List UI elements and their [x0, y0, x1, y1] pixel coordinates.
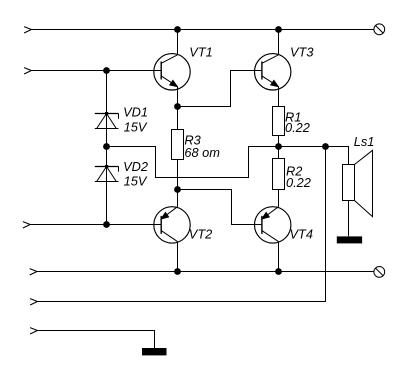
input arrow 3 — [23, 222, 30, 228]
zener diode VD2 — [95, 165, 119, 182]
wire node B to VT2 top — [177, 190, 179, 207]
resistor R1 — [273, 107, 285, 136]
node VT3 collector / rail — [275, 26, 282, 33]
input arrow 1 — [24, 27, 31, 33]
wire R2 bottom to VT4 — [278, 190, 280, 207]
svg-text:68 om: 68 om — [184, 145, 220, 160]
ground (bottom left) — [142, 348, 167, 355]
wire junction to R2 top — [278, 147, 280, 159]
wire VT2 collector to out rail — [177, 242, 179, 272]
wire VT3 emitter to R1 — [278, 87, 280, 107]
svg-text:15V: 15V — [124, 119, 148, 134]
wire junction to speaker node — [279, 146, 326, 148]
node VT1 collector / rail — [174, 26, 181, 33]
wire VT1 emitter to node A — [177, 87, 179, 107]
wire VD chain — [106, 71, 108, 225]
transistor VT4 — [255, 207, 291, 243]
wire rail 5 to speaker feed — [37, 147, 325, 302]
node speaker feed — [322, 143, 329, 150]
resistor R2 — [273, 159, 285, 190]
wire input rail 3 to VT2 base — [30, 224, 161, 226]
svg-text:VD1: VD1 — [123, 105, 148, 120]
node VD1 top — [103, 67, 110, 74]
svg-text:VT3: VT3 — [290, 45, 313, 60]
loudspeaker Ls1 — [343, 150, 373, 216]
svg-text:VT2: VT2 — [189, 226, 212, 241]
node B — [174, 186, 181, 193]
wire R3 bottom to node B — [177, 160, 179, 190]
terminal output top — [374, 24, 385, 35]
node VT2 collector / out — [174, 268, 181, 275]
node R1/R2 junction — [275, 143, 282, 150]
wire speaker node to Ls1 — [326, 147, 349, 165]
svg-text:0.22: 0.22 — [285, 120, 310, 135]
wire node A to R3 top — [177, 107, 179, 130]
wire VT3 collector — [278, 30, 280, 55]
transistor VT3 — [255, 54, 291, 90]
wire R1 bottom to junction — [278, 136, 280, 147]
transistor VT1 — [154, 54, 190, 90]
svg-text:VT1: VT1 — [189, 45, 212, 60]
wire VT4 collector to out rail — [278, 242, 280, 272]
node A — [174, 103, 181, 110]
zener diode VD1 — [95, 112, 119, 129]
node VD1/VD2 junction — [103, 143, 110, 150]
wire output rail — [37, 271, 374, 273]
wire rail 6 to ground — [37, 331, 154, 349]
wire VT1 collector — [177, 30, 179, 55]
input arrow 2 — [24, 68, 31, 74]
input arrow 5 — [30, 299, 37, 305]
terminal output bottom — [374, 267, 385, 278]
node VD2 bottom — [103, 221, 110, 228]
wire node A to VT3 base — [178, 71, 263, 107]
wire Ls1 to ground — [348, 201, 350, 237]
wire node B to VT4 base — [178, 190, 263, 225]
svg-text:VD2: VD2 — [123, 159, 148, 174]
svg-text:15V: 15V — [124, 174, 148, 189]
transistor VT2 — [154, 207, 190, 243]
svg-text:VT4: VT4 — [290, 226, 313, 241]
resistor R3 — [172, 130, 184, 160]
input arrow 6 — [30, 328, 37, 334]
wire VD midpoint to R1/R2 junction (zigzag) — [107, 147, 279, 178]
wire top rail +V — [31, 29, 374, 31]
input arrow 4 — [30, 269, 37, 275]
node VT4 collector / out — [275, 268, 282, 275]
wire input rail 2 to VT1 base — [31, 70, 161, 72]
ground (under speaker) — [337, 236, 362, 243]
svg-text:Ls1: Ls1 — [354, 134, 375, 149]
svg-text:0.22: 0.22 — [286, 175, 311, 190]
